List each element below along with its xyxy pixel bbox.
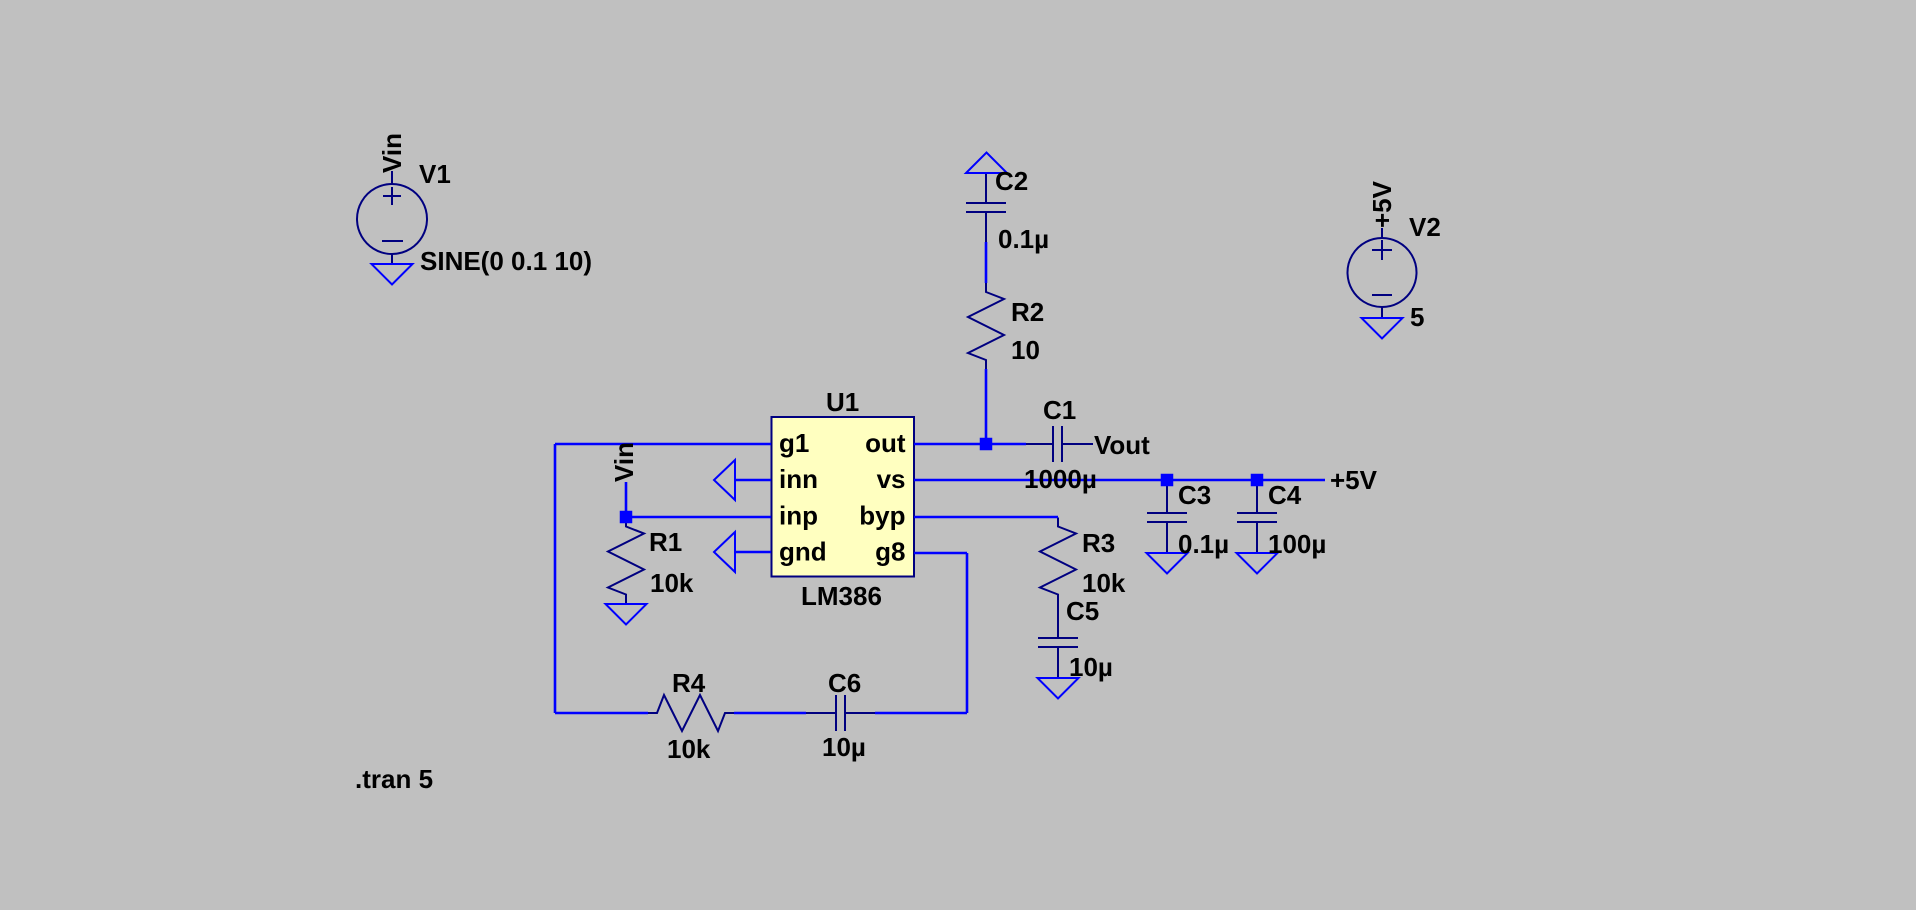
svg-text:+5V: +5V [1367,180,1397,228]
svg-text:0.1µ: 0.1µ [1178,529,1229,559]
svg-text:R1: R1 [649,527,682,557]
svg-text:gnd: gnd [779,537,827,567]
svg-text:0.1µ: 0.1µ [998,224,1049,254]
svg-text:10k: 10k [1082,568,1126,598]
svg-text:SINE(0 0.1 10): SINE(0 0.1 10) [420,246,592,276]
svg-text:V1: V1 [419,159,451,189]
svg-text:100µ: 100µ [1268,529,1326,559]
svg-text:R4: R4 [672,668,706,698]
svg-text:10: 10 [1011,335,1040,365]
svg-text:byp: byp [859,500,905,530]
svg-text:.tran 5: .tran 5 [355,764,433,794]
svg-text:vs: vs [877,464,906,494]
svg-text:Vin: Vin [377,133,407,173]
svg-text:5: 5 [1410,302,1424,332]
svg-text:U1: U1 [826,387,859,417]
svg-text:C6: C6 [828,668,861,698]
svg-text:out: out [865,428,906,458]
svg-text:C3: C3 [1178,480,1211,510]
svg-text:Vout: Vout [1094,430,1150,460]
svg-text:+5V: +5V [1330,465,1378,495]
svg-text:R3: R3 [1082,528,1115,558]
svg-text:10k: 10k [650,568,694,598]
svg-text:C5: C5 [1066,596,1099,626]
svg-text:C4: C4 [1268,480,1302,510]
svg-text:g1: g1 [779,428,809,458]
svg-text:10k: 10k [667,734,711,764]
svg-text:10µ: 10µ [822,732,866,762]
svg-text:1000µ: 1000µ [1024,464,1097,494]
svg-text:R2: R2 [1011,297,1044,327]
svg-text:LM386: LM386 [801,581,882,611]
svg-text:10µ: 10µ [1069,652,1113,682]
svg-text:g8: g8 [875,537,905,567]
svg-text:inn: inn [779,464,818,494]
svg-text:C2: C2 [995,166,1028,196]
svg-text:Vin: Vin [609,442,639,482]
svg-text:V2: V2 [1409,212,1441,242]
svg-text:inp: inp [779,500,818,530]
svg-text:C1: C1 [1043,395,1076,425]
